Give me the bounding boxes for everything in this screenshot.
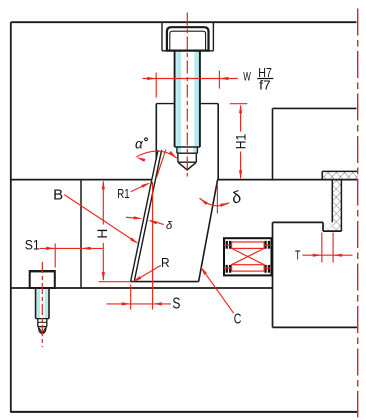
W arrows: [147, 77, 156, 80]
svg-text:H: H: [95, 229, 110, 239]
svg-text:f7: f7: [259, 78, 271, 93]
leader C: [202, 269, 234, 313]
wedge right inclined face: [199, 180, 218, 282]
stop screw S1 shank: [36, 288, 49, 319]
svg-text:α: α: [135, 136, 144, 151]
center line of stop screw S1: [41, 262, 43, 347]
main bolt tip: [175, 146, 200, 148]
S1 arrows: [46, 247, 55, 250]
spring coil symbol (red): [224, 242, 272, 271]
bolt head recess in upper plate: [162, 22, 213, 51]
right angle extension line: [216, 184, 218, 214]
guide hole right wall: [217, 104, 219, 180]
alpha angle arc: [137, 151, 177, 158]
dim S1 extension line: [54, 244, 56, 268]
main bolt head: [167, 27, 209, 50]
lower plate top line: [11, 287, 273, 289]
arrowheads: [46, 77, 342, 306]
alpha arc arrows: [136, 156, 146, 162]
svg-text:δ: δ: [229, 188, 244, 207]
dim S line: [107, 303, 172, 305]
svg-text:T: T: [295, 248, 300, 263]
wedge bottom extension line: [99, 281, 131, 283]
svg-text:R: R: [161, 255, 170, 270]
svg-text:R1: R1: [117, 186, 129, 201]
B leader arrow: [130, 237, 139, 245]
svg-text:δ: δ: [166, 220, 173, 232]
dim S extension lines: [131, 182, 153, 310]
svg-text:B: B: [53, 188, 63, 204]
main bolt shank: [175, 51, 200, 147]
H1 arrows: [239, 104, 242, 113]
T arrows: [313, 254, 322, 257]
middle block right wall: [80, 180, 82, 288]
hatched stopper bar: [322, 171, 357, 179]
wedge left inclined face (outer line): [131, 150, 158, 282]
stop screw S1 tip: [36, 319, 49, 327]
parting line right segment: [218, 179, 358, 181]
leader B: [64, 195, 137, 243]
svg-text:S1: S1: [25, 238, 40, 253]
dim H1 line: [240, 106, 242, 179]
lower right insert block: [273, 222, 359, 327]
alpha leader: [157, 150, 166, 178]
H arrows: [102, 180, 105, 189]
upper plate right portion: [273, 108, 357, 179]
dim W line: [143, 78, 238, 80]
S arrows: [122, 302, 131, 305]
cyan bore highlight of main bolt shank: [176, 51, 181, 147]
right angle arc arrows: [199, 197, 208, 205]
C leader arrow: [199, 265, 207, 274]
dim H1 extension line: [230, 103, 248, 105]
spring seat bars: [226, 241, 270, 273]
leader R1: [131, 184, 148, 192]
wedge bottom face: [131, 281, 199, 283]
leader R: [135, 265, 161, 281]
right angle arc: [200, 198, 230, 206]
parting line left segment: [11, 179, 152, 181]
light hatch in stem clearance notch: [323, 223, 332, 231]
dim T line: [303, 254, 353, 256]
dim H line: [102, 182, 104, 281]
R leader arrow: [132, 276, 142, 283]
main center line right: [357, 9, 359, 418]
stop screw S1 head: [30, 271, 55, 288]
dim W extension lines: [156, 71, 219, 98]
guide hole left wall: [155, 104, 157, 160]
delta gap arrows: [126, 217, 164, 224]
spring assembly box: [224, 238, 272, 275]
dim S1 line: [40, 247, 103, 249]
cyan bore highlight of stop screw S1: [37, 288, 40, 319]
svg-text:H1: H1: [233, 134, 248, 150]
svg-text:W: W: [243, 70, 251, 84]
R1 leader arrow: [141, 181, 151, 188]
hatched stopper stem: [332, 180, 341, 232]
svg-text:S: S: [172, 296, 180, 313]
svg-text:C: C: [234, 310, 242, 327]
wedge left inclined face (inner line): [134, 150, 161, 282]
bottom plate bottom edge: [10, 411, 358, 413]
guide hole step: [156, 103, 218, 105]
delta arrows: [133, 216, 142, 220]
dim T extension lines: [322, 233, 333, 263]
center line of main bolt: [186, 13, 188, 177]
